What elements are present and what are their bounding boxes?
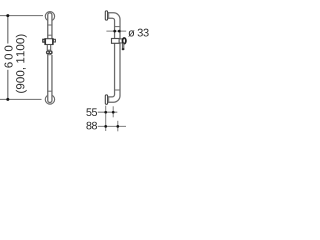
- bottom extension line C: [117, 121, 119, 132]
- side top plate joint: [108, 13, 110, 18]
- front slider left tab: [43, 39, 45, 42]
- label 600 (rotated): [4, 46, 12, 68]
- front slider block: [45, 39, 53, 45]
- front slider white underlay: [46, 45, 52, 56]
- front holder knob: [46, 50, 52, 55]
- front slider right tab: [53, 39, 55, 42]
- side bottom wall plate: [105, 95, 107, 104]
- front rail tube with rounded caps through flanges: [48, 13, 52, 103]
- side slider pin foot: [122, 48, 125, 50]
- side slider body: [112, 39, 120, 44]
- side tube joint line upper: [114, 26, 120, 28]
- side view tube (elbows top and bottom): [107, 13, 120, 102]
- dimension dot bottom: [6, 98, 9, 101]
- front collar line below top flange: [47, 24, 52, 26]
- bottom extension line wall (A): [105, 106, 107, 131]
- dimension extension line top (600): [0, 15, 43, 17]
- label (900, 1100) (rotated): [16, 34, 27, 92]
- dimension dot top: [6, 14, 9, 17]
- dia 33 dimension line: [106, 30, 126, 32]
- dia 33 dot left: [113, 30, 116, 33]
- side bottom plate joint: [108, 97, 110, 102]
- front tube joint line lower: [47, 90, 52, 92]
- side slider knob end ellipse: [123, 38, 126, 44]
- dimension line 55: [98, 111, 118, 113]
- side slider knob cylinder: [119, 39, 123, 43]
- front tube joint line upper: [47, 34, 52, 36]
- dimension line 88: [98, 125, 126, 127]
- label 88: [86, 122, 97, 130]
- vertical dimension line segments (600): [7, 16, 9, 44]
- front bottom flange outer ring: [45, 95, 54, 104]
- bottom extension line B: [112, 106, 114, 117]
- label 55: [86, 108, 97, 116]
- side slider pin: [122, 43, 123, 48]
- dimension extension line bottom (600): [0, 98, 42, 100]
- dia 33 dot right: [118, 30, 121, 33]
- side tube joint line lower: [114, 89, 120, 91]
- label dia 33: [128, 29, 148, 37]
- side top wall plate: [105, 11, 107, 20]
- front holder neck: [46, 45, 48, 51]
- front top flange outer ring: [45, 12, 54, 21]
